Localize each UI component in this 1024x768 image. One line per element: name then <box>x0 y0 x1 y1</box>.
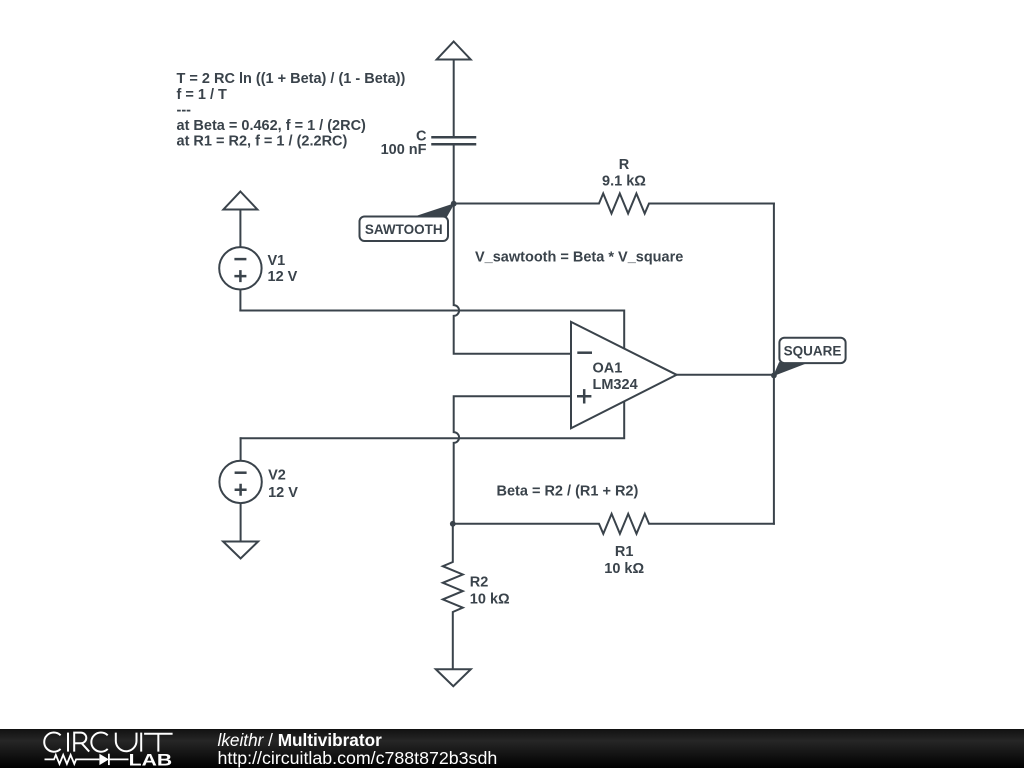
svg-text:R2: R2 <box>470 574 489 590</box>
svg-text:OA1: OA1 <box>593 360 623 376</box>
svg-text:V1: V1 <box>268 253 286 269</box>
svg-text:LM324: LM324 <box>593 377 638 393</box>
svg-text:at R1 = R2, f = 1 / (2.2RC): at R1 = R2, f = 1 / (2.2RC) <box>177 134 348 150</box>
svg-text:at Beta = 0.462, f = 1 / (2RC): at Beta = 0.462, f = 1 / (2RC) <box>177 118 367 134</box>
svg-text:SAWTOOTH: SAWTOOTH <box>365 222 443 237</box>
svg-text:http://circuitlab.com/c788t872: http://circuitlab.com/c788t872b3sdh <box>218 748 498 768</box>
svg-text:12 V: 12 V <box>268 485 298 501</box>
svg-text:R1: R1 <box>615 544 634 560</box>
svg-text:10 kΩ: 10 kΩ <box>604 561 644 577</box>
svg-text:R: R <box>619 157 630 173</box>
svg-text:---: --- <box>177 102 192 118</box>
svg-text:T = 2 RC ln ((1 + Beta) / (1 -: T = 2 RC ln ((1 + Beta) / (1 - Beta)) <box>177 71 406 87</box>
svg-text:SQUARE: SQUARE <box>784 343 842 358</box>
svg-text:12 V: 12 V <box>268 269 298 285</box>
svg-text:V2: V2 <box>268 467 286 483</box>
svg-text:f = 1 / T: f = 1 / T <box>177 87 228 103</box>
svg-text:V_sawtooth = Beta * V_square: V_sawtooth = Beta * V_square <box>475 249 683 265</box>
svg-text:LAB: LAB <box>129 751 173 768</box>
svg-text:9.1 kΩ: 9.1 kΩ <box>602 174 646 190</box>
svg-text:10 kΩ: 10 kΩ <box>470 591 510 607</box>
svg-text:Beta = R2 / (R1 + R2): Beta = R2 / (R1 + R2) <box>497 484 639 500</box>
svg-text:lkeithr / Multivibrator: lkeithr / Multivibrator <box>218 730 383 750</box>
svg-text:100 nF: 100 nF <box>381 142 427 158</box>
